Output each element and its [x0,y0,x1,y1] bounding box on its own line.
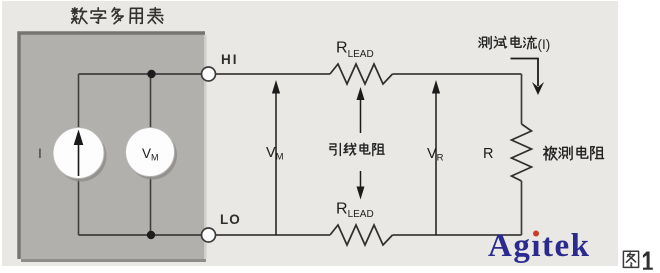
resistor R (DUT, vertical) [512,124,532,181]
caption: 图 1 [623,251,652,270]
svg-text:Agıtek: Agıtek [488,228,591,264]
voltmeter VM (circle) [126,128,178,180]
svg-text:R: R [483,146,493,162]
terminal LO [202,228,216,242]
label: title 数字多用表 (digital multimeter) [72,8,163,24]
svg-text:LO: LO [220,212,241,227]
annotation arrow: lead-resistance to bottom resistor [357,171,365,200]
label: 引线电阻 (lead resistance) [330,143,384,155]
svg-text:I: I [38,145,42,161]
junction: voltmeter tap on top bus [147,70,155,78]
wire: right branch through DUT resistor [521,74,523,124]
annotation arrow: VR voltage across DUT [432,80,440,235]
wire: voltmeter branch (vertical, inside DMM) [150,74,152,235]
svg-text:HI: HI [221,52,239,67]
annotation arrow: lead-resistance to top resistor [357,87,365,133]
terminal HI [202,67,216,81]
label: 被测电阻 (resistance under test) [544,146,604,160]
current source I (circle with up arrow) [53,128,107,182]
wire: top bus from source to HI and lead resistor [79,73,331,75]
label: 测试电流(I) test current [479,36,550,52]
resistor RLEAD (bottom lead resistance) [330,225,393,245]
wire: bottom bus from source to LO and lead resistor [79,234,331,236]
wire: current source branch (vertical, inside DMM) [78,74,80,235]
logo: Agitek [488,228,591,264]
resistor RLEAD (top lead resistance) [330,64,393,84]
annotation arrow: test current direction (elbow, down) [511,59,545,96]
svg-text:(I): (I) [538,37,551,52]
annotation arrow: VM measured voltage [272,80,280,235]
junction: voltmeter tap on bottom bus [147,231,155,239]
DMM enclosure box [19,33,207,262]
